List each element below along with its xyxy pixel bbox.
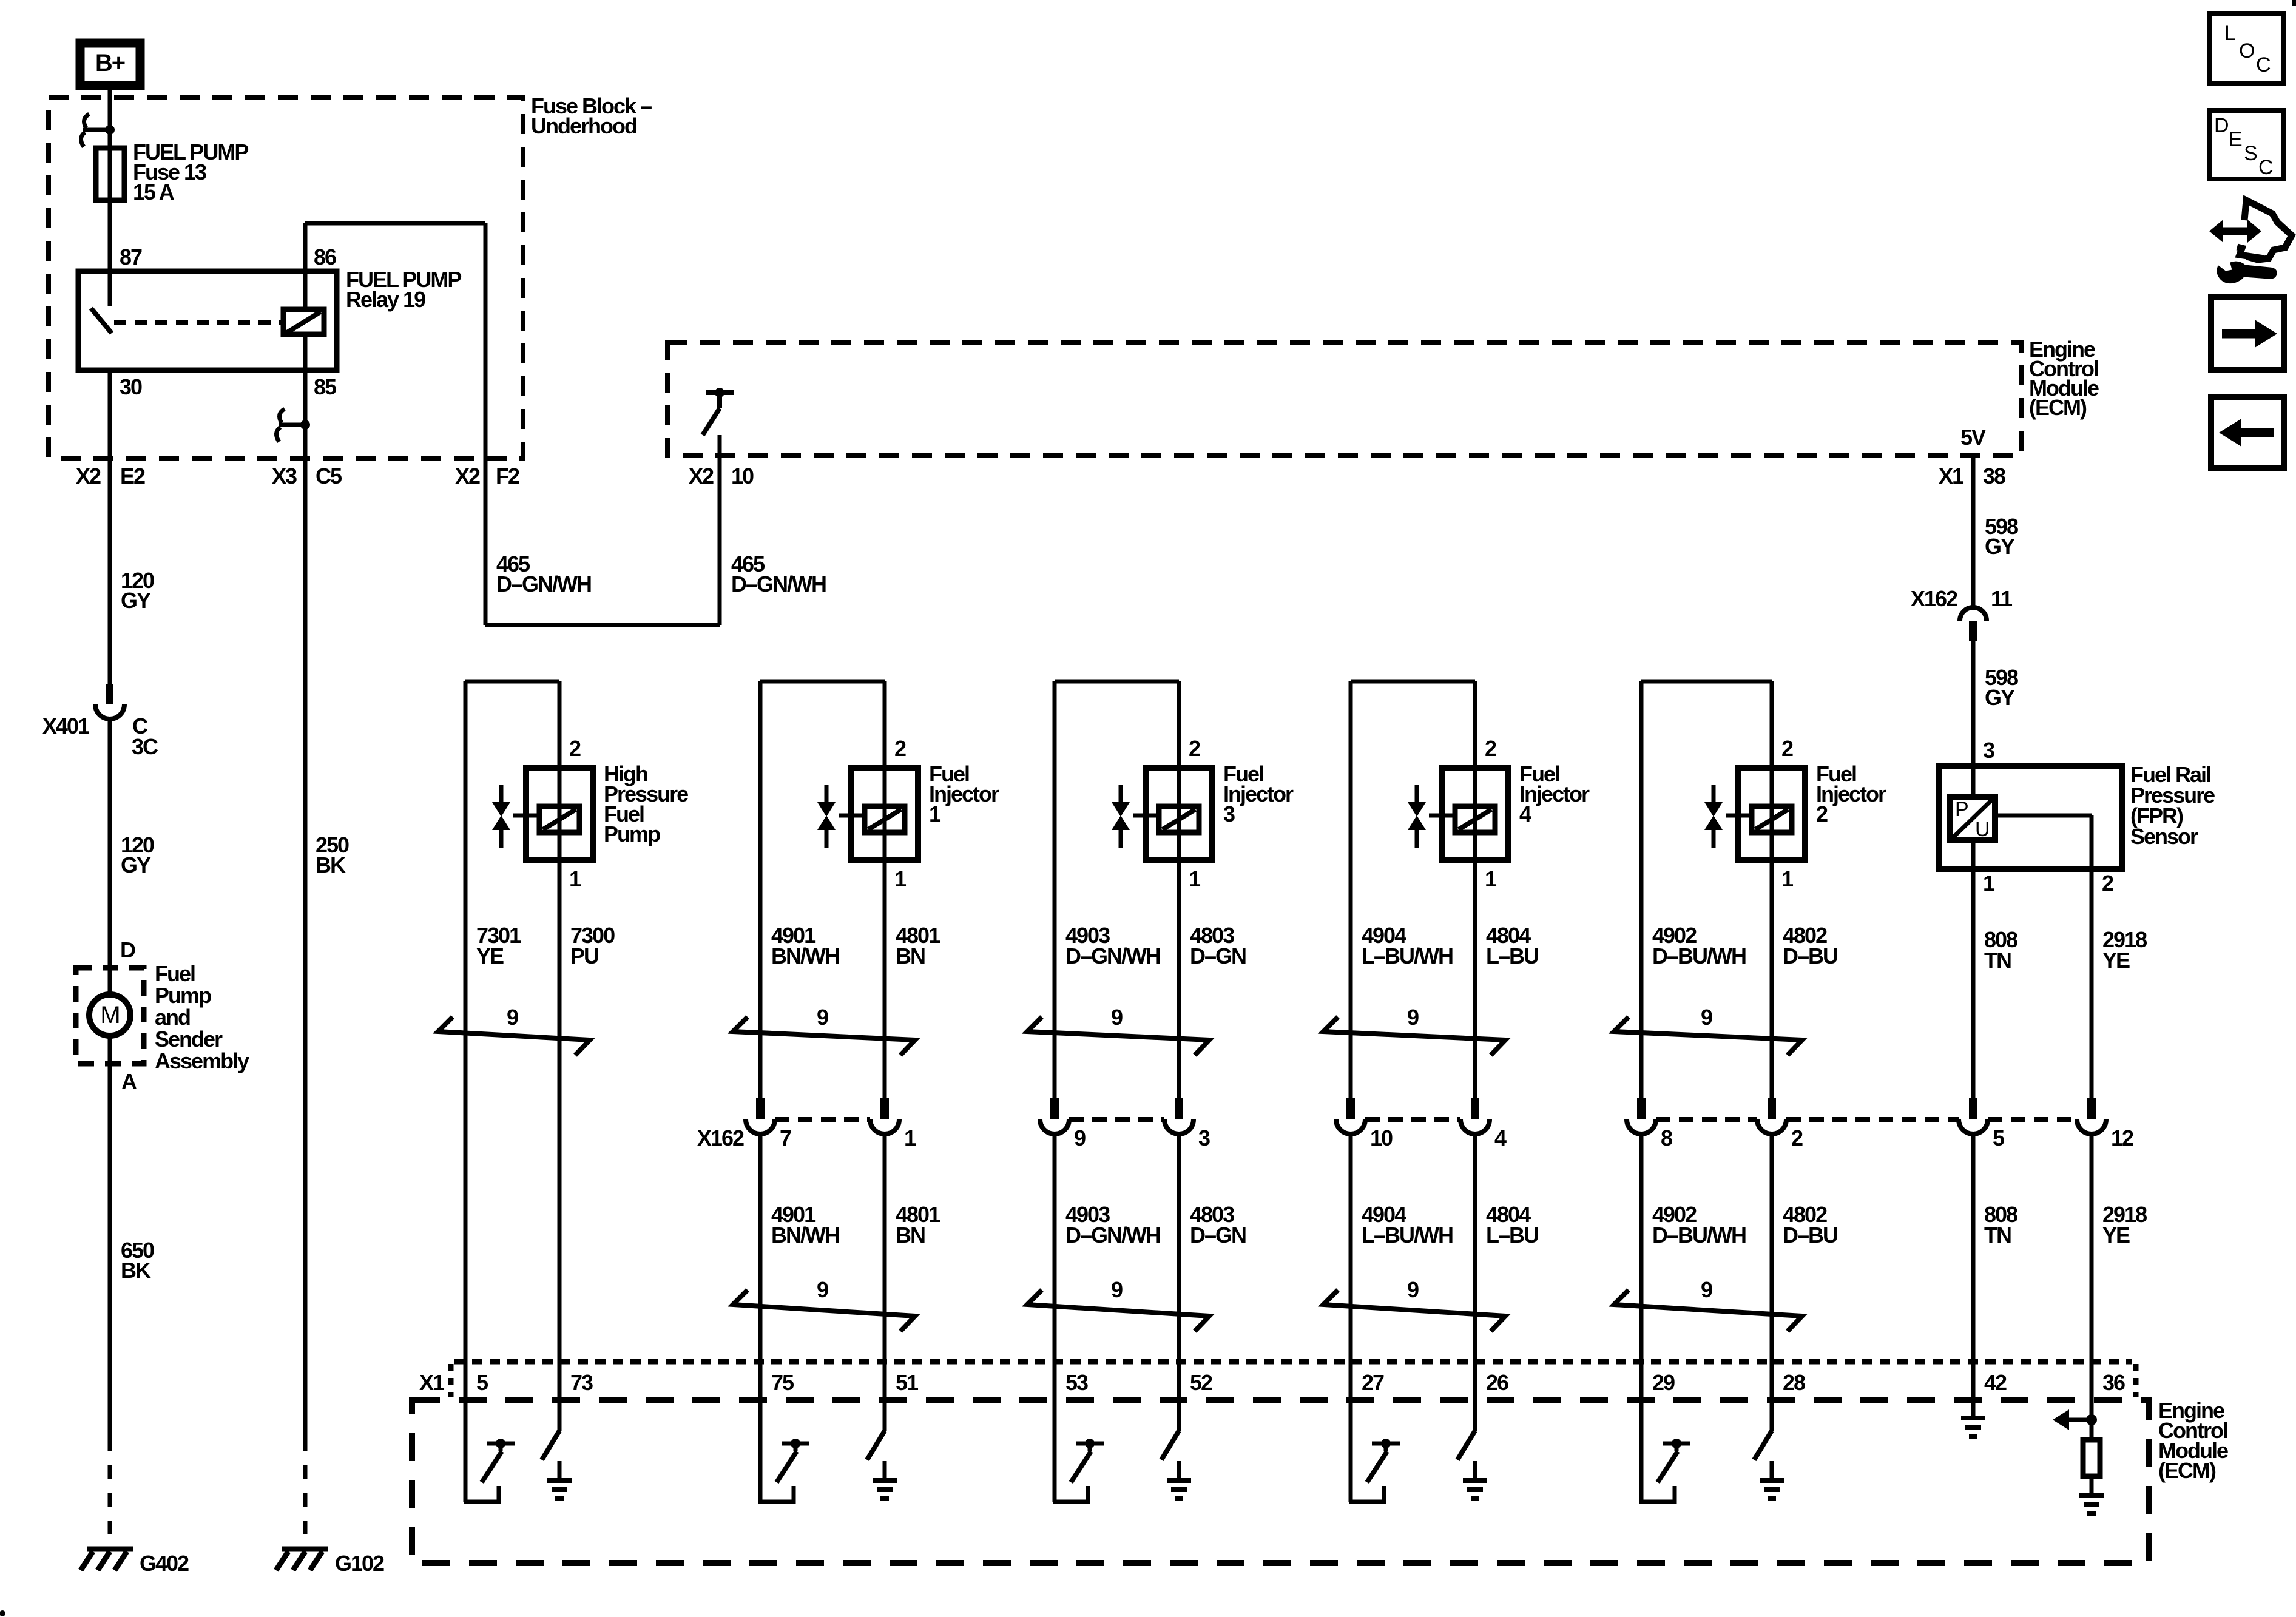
svg-text:9: 9 [1407, 1277, 1419, 1302]
svg-text:C5: C5 [316, 464, 342, 488]
svg-text:D–GN/WH: D–GN/WH [1065, 944, 1160, 968]
svg-text:X2: X2 [455, 464, 480, 488]
svg-text:D–BU/WH: D–BU/WH [1652, 944, 1746, 968]
svg-text:D–BU/WH: D–BU/WH [1652, 1223, 1746, 1247]
svg-text:C: C [2256, 53, 2271, 76]
svg-text:F2: F2 [496, 464, 519, 488]
svg-text:10: 10 [731, 464, 754, 488]
svg-text:C: C [2258, 156, 2273, 179]
svg-text:75: 75 [771, 1370, 794, 1395]
svg-text:YE: YE [2102, 1223, 2130, 1247]
svg-text:10: 10 [1370, 1126, 1393, 1150]
svg-text:X3: X3 [272, 464, 297, 488]
svg-text:BN: BN [896, 1223, 925, 1247]
svg-text:27: 27 [1362, 1370, 1384, 1395]
svg-text:and: and [155, 1005, 190, 1030]
svg-text:B+: B+ [95, 50, 125, 76]
svg-text:PU: PU [570, 944, 598, 968]
svg-text:GY: GY [1985, 685, 2015, 710]
svg-text:D–GN/WH: D–GN/WH [496, 572, 591, 596]
svg-text:GY: GY [121, 852, 151, 877]
svg-text:1: 1 [1485, 866, 1497, 891]
svg-text:9: 9 [1111, 1005, 1123, 1030]
svg-text:1: 1 [569, 866, 581, 891]
svg-text:G102: G102 [335, 1551, 384, 1576]
svg-text:3C: 3C [132, 734, 158, 759]
svg-text:TN: TN [1984, 1223, 2011, 1247]
svg-text:2: 2 [894, 736, 906, 761]
svg-text:9: 9 [817, 1277, 828, 1302]
svg-text:D–BU: D–BU [1783, 944, 1837, 968]
svg-text:3: 3 [1983, 738, 1994, 763]
svg-text:X1: X1 [1939, 464, 1964, 488]
svg-text:9: 9 [1111, 1277, 1123, 1302]
svg-text:BK: BK [316, 852, 346, 877]
svg-text:5: 5 [476, 1370, 488, 1395]
svg-text:Fuel: Fuel [155, 961, 195, 986]
svg-text:2: 2 [1781, 736, 1793, 761]
svg-text:9: 9 [507, 1005, 518, 1030]
svg-text:Pump: Pump [155, 983, 211, 1008]
svg-text:Underhood: Underhood [531, 113, 636, 138]
svg-text:BN/WH: BN/WH [771, 944, 839, 968]
svg-text:L–BU: L–BU [1486, 944, 1538, 968]
svg-text:Sensor: Sensor [2130, 824, 2198, 849]
svg-text:1: 1 [894, 866, 907, 891]
svg-text:38: 38 [1983, 464, 2005, 488]
svg-text:L–BU/WH: L–BU/WH [1362, 1223, 1453, 1247]
svg-text:11: 11 [1991, 586, 2013, 611]
svg-text:86: 86 [314, 245, 336, 269]
svg-text:85: 85 [314, 374, 337, 399]
svg-text:30: 30 [120, 374, 142, 399]
svg-text:M: M [100, 1002, 119, 1028]
svg-text:L: L [2224, 22, 2235, 45]
svg-text:5: 5 [1993, 1126, 2005, 1150]
svg-text:15 A: 15 A [133, 180, 175, 204]
svg-text:(ECM): (ECM) [2158, 1458, 2216, 1483]
svg-text:1: 1 [1983, 871, 1995, 896]
svg-text:2: 2 [1189, 736, 1200, 761]
svg-text:X2: X2 [76, 464, 101, 488]
svg-text:2: 2 [569, 736, 581, 761]
svg-text:D–BU: D–BU [1783, 1223, 1837, 1247]
svg-text:29: 29 [1652, 1370, 1675, 1395]
svg-text:BN/WH: BN/WH [771, 1223, 839, 1247]
svg-text:TN: TN [1984, 948, 2011, 973]
svg-text:1: 1 [1781, 866, 1794, 891]
svg-text:3: 3 [1198, 1126, 1210, 1150]
svg-text:G402: G402 [140, 1551, 189, 1576]
svg-text:D: D [120, 937, 135, 962]
svg-text:52: 52 [1190, 1370, 1212, 1395]
svg-text:28: 28 [1783, 1370, 1805, 1395]
svg-text:26: 26 [1486, 1370, 1508, 1395]
svg-text:1: 1 [929, 802, 941, 826]
svg-text:7: 7 [780, 1126, 791, 1150]
svg-text:53: 53 [1065, 1370, 1088, 1395]
svg-text:X162: X162 [697, 1126, 744, 1150]
svg-text:2: 2 [2102, 871, 2113, 896]
svg-text:4: 4 [1494, 1126, 1507, 1150]
svg-text:D–GN: D–GN [1190, 1223, 1246, 1247]
svg-text:2: 2 [1816, 802, 1828, 826]
svg-text:42: 42 [1984, 1370, 2007, 1395]
svg-text:BK: BK [121, 1258, 151, 1283]
svg-text:L–BU/WH: L–BU/WH [1362, 944, 1453, 968]
svg-text:9: 9 [1701, 1277, 1712, 1302]
svg-text:D–GN/WH: D–GN/WH [1065, 1223, 1160, 1247]
svg-text:O: O [2239, 39, 2254, 62]
svg-text:P: P [1955, 798, 1968, 821]
svg-text:X401: X401 [42, 714, 90, 738]
svg-text:3: 3 [1223, 802, 1235, 826]
svg-text:YE: YE [476, 944, 504, 968]
svg-text:E: E [2229, 128, 2242, 151]
svg-text:X2: X2 [689, 464, 714, 488]
svg-text:Relay 19: Relay 19 [346, 287, 425, 312]
svg-text:(ECM): (ECM) [2029, 395, 2087, 420]
svg-text:D: D [2214, 114, 2228, 137]
svg-text:2: 2 [1791, 1126, 1803, 1150]
svg-text:9: 9 [1074, 1126, 1086, 1150]
svg-text:1: 1 [1189, 866, 1201, 891]
svg-text:73: 73 [570, 1370, 593, 1395]
svg-text:12: 12 [2111, 1126, 2133, 1150]
svg-text:YE: YE [2102, 948, 2130, 973]
svg-text:L–BU: L–BU [1486, 1223, 1538, 1247]
svg-text:GY: GY [1985, 534, 2015, 559]
svg-text:2: 2 [1485, 736, 1496, 761]
svg-text:5V: 5V [1960, 425, 1986, 450]
svg-text:51: 51 [896, 1370, 919, 1395]
svg-text:Assembly: Assembly [155, 1048, 249, 1073]
svg-text:87: 87 [120, 245, 142, 269]
svg-text:E2: E2 [120, 464, 145, 488]
svg-text:8: 8 [1661, 1126, 1672, 1150]
svg-text:9: 9 [1701, 1005, 1712, 1030]
svg-text:Pump: Pump [604, 822, 660, 846]
svg-text:36: 36 [2102, 1370, 2125, 1395]
svg-text:A: A [121, 1069, 137, 1094]
svg-text:9: 9 [817, 1005, 828, 1030]
svg-text:S: S [2244, 142, 2257, 165]
svg-text:X162: X162 [1911, 586, 1957, 611]
svg-text:BN: BN [896, 944, 925, 968]
svg-text:Sender: Sender [155, 1027, 223, 1052]
svg-text:X1: X1 [419, 1370, 445, 1395]
svg-text:D–GN: D–GN [1190, 944, 1246, 968]
svg-text:U: U [1975, 818, 1989, 841]
svg-text:9: 9 [1407, 1005, 1419, 1030]
svg-text:4: 4 [1519, 802, 1531, 826]
svg-text:1: 1 [904, 1126, 916, 1150]
svg-text:GY: GY [121, 588, 151, 613]
svg-text:D–GN/WH: D–GN/WH [731, 572, 826, 596]
